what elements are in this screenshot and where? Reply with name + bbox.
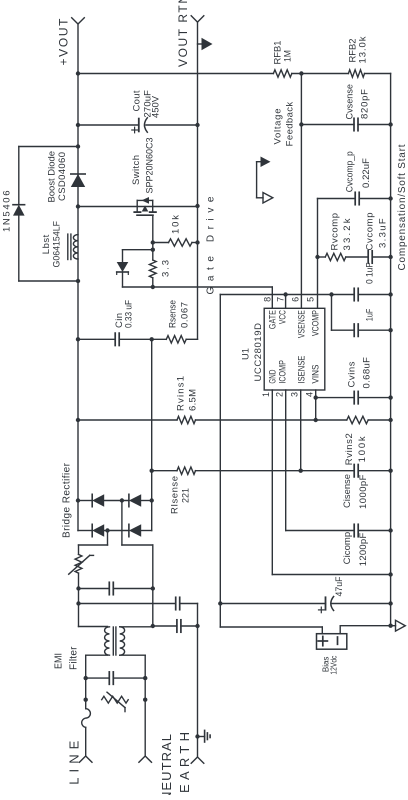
svg-text:12Vdc: 12Vdc (329, 656, 338, 675)
wire choke lower right lead (120, 626, 153, 628)
wire RIsense column (152, 470, 391, 472)
pin number 6 (291, 297, 301, 302)
svg-text:Rvcomp: Rvcomp (330, 213, 341, 251)
capacitor 47uF polarized (326, 597, 334, 611)
node line-Xcap2 junction (84, 676, 88, 680)
wire Cvcomp_p lower (359, 198, 390, 200)
wire VOUT RTN bus (197, 22, 199, 339)
node neg-bridgeA junction (150, 498, 154, 502)
label Voltage Feedback (273, 102, 296, 147)
svg-text:VSENSE: VSENSE (296, 310, 306, 338)
core choke (113, 627, 116, 655)
node VCC pin junction (283, 292, 287, 296)
label Cicomp 1200pF (342, 532, 369, 566)
node rail-Cout junction (76, 123, 80, 127)
svg-text:Compensation/Soft Start: Compensation/Soft Start (397, 144, 408, 270)
wire GND pin route (272, 390, 390, 575)
svg-text:5: 5 (306, 297, 316, 302)
label EARTH (177, 732, 192, 793)
svg-text:47uF: 47uF (334, 576, 344, 596)
wire Cvins branch (316, 397, 391, 399)
node bus-switch-source junction (195, 204, 199, 208)
node bridge B tap (105, 528, 109, 532)
diode bridge B lower (129, 524, 141, 536)
label 10k (171, 215, 182, 234)
wire top power rail (77, 24, 79, 531)
pin label VINS (310, 365, 320, 384)
terminal +VOUT (72, 18, 85, 24)
capacitor Cin (115, 333, 119, 345)
wire earth bus (197, 604, 199, 758)
capacitor Cisense (354, 465, 358, 477)
wire 47uF branch (220, 603, 390, 605)
node rail-Cin junction (76, 337, 80, 341)
node bus-Rvins2 junction (388, 418, 392, 422)
wire 1uF branch (332, 295, 391, 331)
svg-text:LINE: LINE (67, 740, 82, 784)
svg-text:Cvcomp_p: Cvcomp_p (345, 151, 356, 192)
capacitor Y1 (176, 597, 180, 609)
capacitor Cvcomp_p (355, 192, 359, 204)
wire Rvins column (78, 419, 391, 421)
node line-MOV junction (84, 698, 88, 702)
thermistor diagonal (69, 555, 94, 574)
node bridge A tap (120, 498, 124, 502)
wire neutral post-choke line (152, 545, 154, 627)
annotation feedback arrows (257, 157, 273, 204)
node earth-ground junction (195, 734, 199, 738)
label VOUT RTN (176, 0, 190, 67)
pin label GATE (267, 310, 277, 329)
svg-text:VINS: VINS (310, 365, 320, 384)
svg-text:UCC28019D: UCC28019D (253, 323, 264, 382)
wire Xcap2 branch (86, 677, 146, 679)
wire AC tap B (79, 531, 108, 546)
node bus-bias junction (388, 624, 392, 628)
wire line rail right (78, 545, 80, 627)
label Bias 12Vdc (321, 656, 338, 675)
node bus-Cvsense junction (388, 122, 392, 126)
svg-text:1000pF: 1000pF (358, 474, 369, 509)
svg-text:Cicomp: Cicomp (342, 532, 353, 565)
node VSENSE tap (299, 71, 303, 75)
wire VSENSE line (300, 74, 302, 309)
node VSENSE-Cvsense junction (299, 122, 303, 126)
node VINS-Cvins junction (314, 395, 318, 399)
node rail-bypass-left junction (76, 279, 80, 283)
node bus-GNDpin junction (388, 572, 392, 576)
node bus-VCC-cap junction (388, 292, 392, 296)
label Cvcomp_p 0.22uF (345, 151, 373, 192)
pin number 4 (305, 392, 315, 397)
ic U1 UCC28019D box (264, 308, 325, 390)
node rail-bridgeA junction (76, 498, 80, 502)
label RIsense 221 (170, 476, 192, 514)
polarity mark 47uF (319, 607, 325, 613)
label 1uF (365, 309, 376, 322)
net pointer bias arrow (396, 620, 406, 631)
node bus-10k junction (195, 240, 199, 244)
svg-text:Lbst: Lbst (41, 234, 52, 254)
svg-text:VOUT RTN: VOUT RTN (176, 0, 190, 67)
capacitor Cicomp (354, 524, 358, 536)
wire bypass diode loop (19, 147, 78, 282)
svg-text:VCOMP: VCOMP (310, 310, 320, 336)
wire Xcap branch (79, 588, 153, 590)
node VINS node (314, 418, 318, 422)
svg-text:ICOMP: ICOMP (277, 360, 287, 384)
svg-text:0.68uF: 0.68uF (362, 357, 373, 389)
label RFB1 1M (273, 41, 294, 65)
svg-text:3: 3 (290, 392, 300, 397)
label Cin 0.33uF (114, 300, 135, 328)
svg-text:Boost Diode: Boost Diode (47, 151, 58, 203)
inductor choke lower winding (120, 627, 125, 655)
node sense node (150, 337, 154, 341)
svg-text:U1: U1 (241, 348, 252, 360)
wire AC tap A (122, 501, 153, 546)
diode bridge A upper (92, 494, 104, 506)
resistor Rvcomp (325, 253, 346, 260)
resistor Rsense (166, 336, 186, 343)
pin number 3 (290, 392, 300, 397)
wire choke upper right lead (79, 626, 108, 628)
resistor RIsense (177, 467, 196, 474)
node VCC-1uF junction (329, 292, 333, 296)
wire ISENSE pin route (300, 390, 302, 471)
svg-text:0.33 uF: 0.33 uF (124, 300, 135, 328)
svg-text:RIsense: RIsense (170, 476, 181, 514)
svg-text:4: 4 (305, 392, 315, 397)
pin label VSENSE (296, 310, 306, 338)
resistor RFB1 (273, 70, 291, 77)
label LINE (67, 740, 82, 784)
svg-text:1200pF: 1200pF (358, 533, 369, 567)
svg-text:0 1uF: 0 1uF (365, 262, 376, 284)
diode bridge B upper (92, 524, 104, 536)
svg-text:G064154LF: G064154LF (52, 221, 63, 268)
capacitor X2 after choke (109, 582, 113, 594)
svg-text:1: 1 (261, 392, 271, 397)
wire VCOMP line (318, 199, 356, 309)
svg-text:8: 8 (262, 297, 272, 302)
node gate-riser junction (151, 285, 155, 289)
svg-text:2: 2 (275, 392, 285, 397)
wire bias plus lead (220, 627, 322, 634)
wire VINS pin route (315, 390, 317, 420)
label Rvcomp 33.2k (330, 213, 354, 251)
svg-text:0.22uF: 0.22uF (361, 158, 372, 188)
svg-text:6.5M: 6.5M (188, 389, 199, 411)
svg-text:3.3uF: 3.3uF (378, 218, 389, 248)
wire gate line (152, 215, 154, 287)
label 0.1uF (365, 262, 376, 284)
svg-text:NEUTRAL: NEUTRAL (159, 734, 174, 795)
varistor MOV line-neutral (102, 692, 129, 711)
svg-text:221: 221 (181, 488, 192, 503)
label Bridge Rectifier (62, 462, 73, 538)
wire ICOMP pin route (286, 390, 391, 531)
wire VCC column (220, 294, 390, 296)
svg-text:13.0k: 13.0k (357, 36, 368, 63)
svg-text:Bridge Rectifier: Bridge Rectifier (62, 462, 73, 538)
capacitor Cvcomp (368, 251, 372, 263)
wire Rvcomp-Cvcomp branch (318, 256, 391, 258)
label Compensation Soft Start (397, 144, 408, 270)
svg-text:Cvins: Cvins (347, 361, 358, 387)
node line-Ycap junction (76, 601, 80, 605)
resistor 3.3 gate (149, 260, 156, 278)
svg-text:10k: 10k (171, 215, 182, 234)
battery Bias box (317, 634, 347, 650)
wire switch drain-source line (78, 206, 198, 208)
wire feedback divider (78, 73, 391, 75)
node gate-10k junction (151, 240, 155, 244)
svg-text:Feedback: Feedback (285, 102, 296, 147)
pin label GND (267, 369, 277, 383)
label NEUTRAL (159, 734, 174, 800)
svg-text:Switch: Switch (131, 155, 142, 185)
pin number 8 (262, 297, 272, 302)
node neutral-MOV junction (143, 698, 147, 702)
capacitor Y2 (177, 620, 181, 632)
diode bridge A lower (129, 494, 141, 506)
label EMI Filter (54, 646, 80, 670)
label Rsense 0.067 (168, 300, 191, 328)
node gate-diode junction (151, 248, 155, 252)
svg-text:Cout: Cout (132, 90, 143, 111)
label RFB2 13.0k (348, 36, 369, 63)
label 1N5406 (2, 191, 13, 233)
wire choke upper left lead (86, 654, 108, 656)
label Rvins2 100k (344, 433, 368, 465)
terminal VOUT RTN (191, 16, 204, 22)
node neutral-Xcap2 junction (143, 676, 147, 680)
svg-text:GND: GND (267, 369, 277, 383)
wire VCC riser (219, 295, 221, 628)
svg-text:0.067: 0.067 (180, 302, 191, 328)
svg-text:SPP20N60C3: SPP20N60C3 (145, 138, 156, 194)
label Switch SPP20N60C3 (131, 138, 156, 194)
svg-text:Voltage: Voltage (273, 109, 284, 145)
battery plus sign (318, 636, 327, 645)
node ISENSE junction (299, 469, 303, 473)
node bus-Cvcomp_p junction (388, 196, 392, 200)
node postchoke-Xcap junction (151, 586, 155, 590)
label Cvins 0.68uF (347, 357, 373, 389)
label Cvcomp 3.3uF (365, 213, 389, 251)
node bus-Rvcomp junction (388, 255, 392, 259)
capacitor Cvsense (354, 118, 358, 130)
wire Ycap2 branch (153, 625, 198, 627)
wire bias minus lead (340, 626, 395, 634)
capacitor 0.1uF VCC (354, 288, 358, 300)
node rail-Rvins1 junction (76, 418, 80, 422)
svg-text:6: 6 (291, 297, 301, 302)
transistor switch SPP20N60C3 (134, 197, 156, 215)
node earth-Ycap2 junction (195, 624, 199, 628)
svg-text:Cvcomp: Cvcomp (365, 213, 376, 251)
terminal LINE (79, 756, 92, 762)
wire gate speedup loop (123, 250, 153, 287)
label Lbst G064154LF (41, 221, 63, 268)
node rail-bypass-right junction (76, 144, 80, 148)
node bus-Cicomp junction (388, 528, 392, 532)
resistor RFB2 (348, 70, 364, 77)
svg-text:Rvins1: Rvins1 (176, 376, 187, 411)
pin label ICOMP (277, 360, 287, 384)
pin number 5 (306, 297, 316, 302)
svg-text:VCC: VCC (277, 310, 287, 324)
wire choke lower left lead (120, 654, 146, 656)
wire bridge negative line (151, 339, 153, 530)
node riser-47uF junction (218, 601, 222, 605)
ground chassis symbol (198, 730, 211, 742)
pin number 7 (276, 297, 286, 302)
label +VOUT (57, 18, 71, 66)
node bus-Cvins junction (388, 395, 392, 399)
wire 10k leads (153, 242, 198, 244)
wire line terminal rail (85, 655, 87, 756)
svg-text:820pF: 820pF (360, 89, 371, 119)
inductor choke upper winding (105, 627, 110, 655)
diode 1N5406 bypass (13, 205, 25, 216)
svg-text:GATE: GATE (267, 310, 277, 329)
node neg-RIsense junction (150, 469, 154, 473)
wire Ycap1 branch (79, 603, 198, 605)
label 47uF (334, 576, 344, 596)
capacitor Cout polarized (139, 118, 148, 132)
capacitor Cvins (354, 391, 358, 403)
pin number 2 (275, 392, 285, 397)
label Cisense 1000pF (342, 474, 369, 509)
fuse (82, 709, 91, 728)
svg-text:CSD04060: CSD04060 (57, 152, 68, 201)
node bus-Cout junction (195, 123, 199, 127)
pin label ISENSE (296, 356, 306, 384)
net pointer VOUT RTN arrow (198, 38, 213, 50)
polarity mark Cout (132, 127, 138, 133)
wire GATE pin 8 route (123, 287, 273, 308)
svg-text:1M: 1M (283, 50, 294, 62)
node rail-feedback junction (76, 71, 80, 75)
svg-text:450V: 450V (151, 95, 162, 118)
svg-text:ISENSE: ISENSE (296, 356, 306, 384)
svg-text:33.2k: 33.2k (342, 218, 353, 250)
resistor 10k gate pulldown (169, 239, 193, 246)
label Rvins1 6.5M (176, 376, 199, 411)
diode boost CSD04060 (71, 174, 85, 187)
label 3.3 (161, 260, 172, 277)
svg-text:Filter: Filter (69, 646, 80, 670)
node line-Xcap junction (76, 586, 80, 590)
label U1 refdes (241, 348, 252, 360)
svg-text:7: 7 (276, 297, 286, 302)
pin label VCC (277, 310, 287, 324)
terminal NEUTRAL (139, 756, 152, 762)
resistor Rvins1 (177, 416, 196, 423)
svg-text:3.3: 3.3 (161, 260, 172, 277)
node bus-47uF junction (388, 601, 392, 605)
node bus-Cisense junction (388, 469, 392, 473)
terminal EARTH (191, 757, 204, 763)
thermistor inrush (75, 554, 82, 573)
pin label VCOMP (310, 310, 320, 336)
wire neutral rail (144, 655, 146, 756)
svg-text:Rsense: Rsense (168, 300, 179, 328)
capacitor 1uF (354, 324, 358, 336)
wire control ground bus (390, 74, 392, 626)
resistor Rvins2 (347, 416, 368, 423)
wire bridge branch B (78, 530, 152, 532)
wire VCC pin stub (285, 295, 287, 309)
wire Cout branch (78, 124, 198, 126)
svg-text:Rvins2: Rvins2 (344, 433, 355, 465)
label Gate Drive (206, 196, 217, 294)
node postchoke-Ycap2 junction (151, 624, 155, 628)
diode gate speedup (117, 262, 129, 274)
label Cout 270uF 450V (132, 90, 162, 118)
pin number 1 (261, 392, 271, 397)
wire Cvsense branch (301, 124, 390, 126)
wire Cin-Rsense column (78, 338, 198, 340)
svg-text:Cvsense: Cvsense (345, 84, 356, 120)
capacitor X2 before choke (109, 672, 113, 684)
svg-text:EMI: EMI (54, 653, 65, 669)
svg-text:1uF: 1uF (365, 309, 376, 322)
node rail-switch junction (76, 204, 80, 208)
label Boost Diode CSD04060 (47, 151, 69, 203)
wire bridge branch A (78, 500, 152, 502)
node VCOMP-Rvcomp junction (315, 255, 319, 259)
inductor Lbst (68, 234, 78, 259)
battery minus sign (337, 637, 339, 644)
svg-text:Cisense: Cisense (342, 474, 353, 508)
node bus-1uF junction (388, 328, 392, 332)
label UCC28019D (253, 323, 264, 382)
label Cvsense 820pF (345, 84, 371, 120)
